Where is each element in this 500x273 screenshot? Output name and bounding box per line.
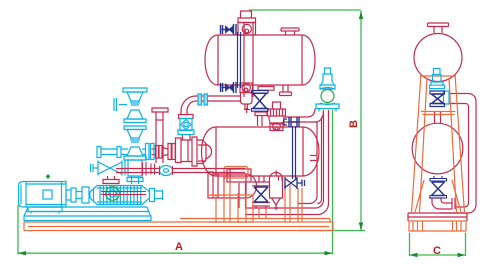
arrow C left [410,253,418,257]
manifold top valve bowtie [127,92,143,119]
dim A horizontal line [18,252,333,254]
motor feet [28,207,62,214]
omega fitting on lower tank top [270,123,283,131]
safety valve base flange [316,104,339,112]
side view gate valve lower [432,182,445,196]
dim C horizontal line [410,254,466,256]
svg-text:B: B [348,120,360,128]
float trap inlet pipe [279,176,283,181]
svg-text:A: A [175,241,183,253]
dim A left extension line [17,205,19,255]
side view gate valve upper [432,94,444,104]
upper tank top nozzle [281,28,299,35]
motor shaft coupling [66,187,89,203]
bottom gate valve flange lower [252,203,270,209]
side view base top plate [408,213,467,221]
tee drop flange on pump [127,178,143,182]
thin lower pipe red line [116,169,245,173]
side view safety valve [430,69,445,89]
dimension labels [175,120,441,257]
manifold left branch valve [98,161,125,176]
upper gauge bottom valve [221,82,237,93]
side view lower drain elbow [429,198,455,209]
pump base pedestal [24,207,151,221]
riser top cap [238,11,256,23]
left branch handle arrow [91,164,99,172]
side view frame legs [412,74,465,213]
arrow C right [458,253,466,257]
side view frame crossbar [421,112,456,115]
lower tank weld seams [216,127,303,176]
orange drop from manifold [259,209,266,219]
lower tank shell [202,127,320,176]
motor top green marker [46,175,50,179]
feed pump casing [176,137,212,166]
dim C left extension [409,233,411,256]
manifold vertical stack top flange [123,88,147,92]
dim A extension right / safety valve reference [332,110,334,255]
main pump casing [90,186,150,205]
manifold top valve left handle [114,98,127,111]
dim C right extension [465,233,467,256]
bottom left pump body [208,172,257,198]
side view upper tank circle [414,34,462,82]
lower gauge bottom stub [293,176,296,179]
gate valve below lower tank [254,187,268,202]
navy gauges and valves [103,24,447,202]
upper tank shell [205,35,315,85]
red drop flange under left branch valve [103,176,119,184]
side view lower tank circle [412,123,463,174]
navy horizontal valve at trap outlet [285,177,305,189]
dim B vertical line [360,11,362,231]
pump outlet right [150,189,163,202]
pipe to safety valve inlet riser [285,109,324,123]
manifold mid flanges [124,119,146,130]
lower gauge top valve [289,117,299,127]
riser bottom float cylinder [241,93,253,114]
upper left horizontal pipe [196,96,240,101]
cyan flange on upper left pipe [198,94,208,105]
side view frame top saddle [420,75,456,77]
upper level gauge tube [238,32,241,88]
manifold tee body [128,160,142,184]
tank support column left [224,182,238,222]
lower level gauge tube [293,126,296,178]
bottom drain stem [252,176,270,186]
drain pipe lower horizontal left elbow [239,183,246,209]
side view right pipe [440,94,476,214]
manifold lower valve [127,130,143,157]
safety valve body circle [321,90,334,103]
pump top vertical pipe [183,135,191,141]
upper tank weld seams [218,35,302,85]
arrow B bottom [359,223,363,231]
pump shaft line [101,192,146,195]
motor fins [26,182,66,208]
orange base frame [24,74,466,231]
riser top fitting body [238,23,256,36]
lower tank left nozzle pipe [198,145,206,161]
lower manifold header box [227,169,251,182]
inline ellipse pump on lower pipe [160,166,173,176]
riser top fitting circle [242,24,251,33]
side view gate valve upper cyan block [444,91,450,104]
manifold bottom flange [124,156,146,160]
orange header box under tank [224,167,248,179]
safety valve stack [320,68,335,89]
arrow B top [359,11,363,19]
dim B bottom reference line [298,230,365,232]
pump suction eye circle [106,187,120,201]
cyan flange under ball valve [178,130,194,135]
upper left elbow [181,96,196,115]
upper tank riser pipe [244,23,253,97]
left branch top flanged pipe [97,147,128,158]
gate valve lower pipe [255,112,267,126]
cyan flange pair at pump inlet [142,144,154,160]
blowdown pipe inner [298,117,322,204]
pump saddle support [208,195,253,222]
base mid line [28,226,329,228]
dim B top reference line [249,9,361,11]
cyan equipment [19,68,450,221]
arrow A left [18,251,26,255]
upper tank right bottom flanged drop [280,85,292,96]
float trap body [270,171,283,211]
lower tank right nozzle stub [310,156,317,161]
ball valve on pump riser [180,119,192,131]
gate valve between tanks [253,93,267,108]
riser bottom fitting body [240,83,253,93]
upper gauge top valve [221,24,237,35]
motor body [19,182,67,208]
motor window [43,190,52,199]
riser bottom fitting circle [242,84,250,92]
capped standpipe near manifold [152,108,168,163]
PRV body on lower tank [268,102,286,124]
red equipment [152,11,477,221]
tank support column right [285,183,302,222]
arrow A right [325,251,333,255]
pump stage ribs [97,186,142,205]
upper tank bottom drop nozzle [258,85,274,90]
svg-text:C: C [433,245,441,257]
side view stem between valves [435,112,441,124]
side view upper nozzle [428,23,449,33]
side view base plate [409,221,466,231]
base upper line right part [180,219,330,223]
side view frame inner legs [415,180,461,212]
feed pump inlet reducer and flanges [152,144,176,160]
ball valve flanges above pump [179,115,194,119]
safety valve drain pipe outer [245,110,329,215]
red flanges near manifold lower pipe [143,162,173,176]
main base plate front view [24,222,333,231]
